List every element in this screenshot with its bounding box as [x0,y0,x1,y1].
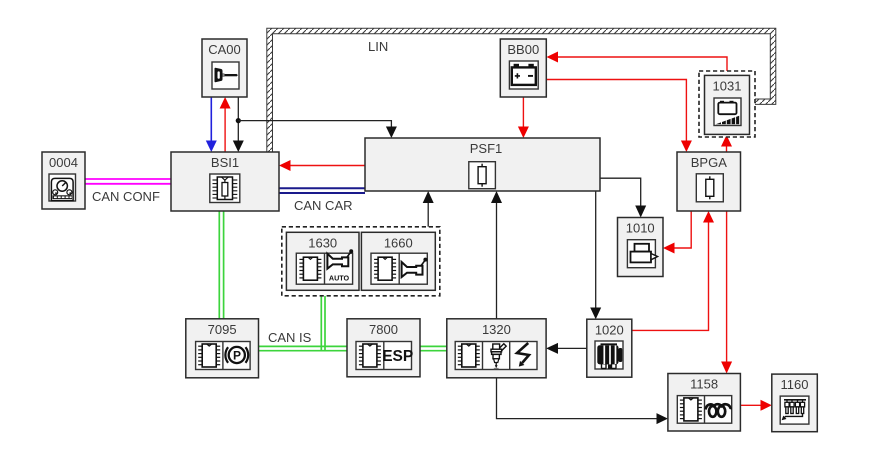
svg-text:P: P [233,349,241,363]
wire red BPGA to 1158 [726,211,728,362]
svg-text:ESP: ESP [382,348,413,365]
svg-text:1020: 1020 [595,323,624,338]
component 1320 engine ECU [447,319,546,378]
svg-text:PSF1: PSF1 [470,141,503,156]
component BPGA [677,152,741,211]
wire red 1158 to 1160 [741,404,761,406]
svg-text:1031: 1031 [713,79,742,94]
svg-text:0004: 0004 [49,155,78,170]
svg-text:CAN CAR: CAN CAR [294,198,353,213]
svg-text:CAN IS: CAN IS [268,330,312,345]
svg-text:1158: 1158 [690,377,718,392]
wire blue CA00 to BSI1 [210,97,212,141]
wire black PSF1 to 1020 [595,191,597,308]
wire black 1320 to PSF1 [496,203,498,319]
wire black 1020 to 1320 [558,347,587,349]
component 1020 alternator [587,319,632,377]
svg-text:7095: 7095 [208,322,237,337]
svg-text:1010: 1010 [626,221,655,236]
wire red BPGA to 1010 [674,211,691,248]
wire green double CAN IS horizontal 7095-7800-1320 [259,346,447,350]
svg-text:AUTO: AUTO [329,274,350,283]
wire red BPGA to 1031 [726,146,728,153]
svg-text:1660: 1660 [384,236,413,251]
wire black PSF1 to 1010 [600,178,641,206]
wire green double 1630 branch [321,296,325,352]
svg-text:BB00: BB00 [507,42,539,57]
svg-text:1320: 1320 [482,322,511,337]
component 7095 parking brake ECU [186,319,259,378]
svg-text:BPGA: BPGA [691,155,727,170]
component 1630 (dashed group) [282,227,440,296]
wire red BB00 to PSF1 [522,97,524,127]
wire CAN CONF magenta double 0004-BSI1 [85,179,171,184]
node junction dot [236,118,241,123]
component 1010 [618,218,664,277]
svg-text:CA00: CA00 [208,42,241,57]
component BB00 battery [500,39,546,97]
wire red BSI1 to CA00 [224,108,226,152]
component PSF1 [365,138,600,191]
svg-text:7800: 7800 [369,322,398,337]
component CA00 ignition key [202,39,247,97]
component 1660 [361,232,435,290]
wire red 1031 to BB00 [558,57,727,75]
wire CAN CAR blue double BSI1-PSF1 [279,188,365,193]
wire red 1020 to BPGA [632,222,709,330]
svg-text:1160: 1160 [781,377,809,392]
svg-text:CAN CONF: CAN CONF [92,189,160,204]
wire red BB00 to BPGA [547,80,687,142]
component 0004 instrument cluster [42,152,85,209]
wire black branch to PSF1 top [238,121,391,127]
wire green double BSI1 to 7095 [219,211,223,319]
wire black CA00 to BSI1 and branch to PSF1 [237,97,239,141]
wire red PSF1 to BSI1 [290,165,365,167]
LIN bus hatched band [267,28,776,152]
component 1031 battery charge unit (dashed) [699,71,755,137]
component 7800 ESP ECU [347,319,420,377]
svg-text:1630: 1630 [308,236,337,251]
svg-text:BSI1: BSI1 [211,155,239,170]
svg-text:LIN: LIN [368,39,388,54]
wire black 1630 box to PSF1 [427,203,429,227]
component 1160 glow plugs [772,374,818,432]
component BSI1 [171,152,279,211]
wire black 1320 to 1158 [497,378,657,419]
component 1158 preheating unit [668,374,741,432]
